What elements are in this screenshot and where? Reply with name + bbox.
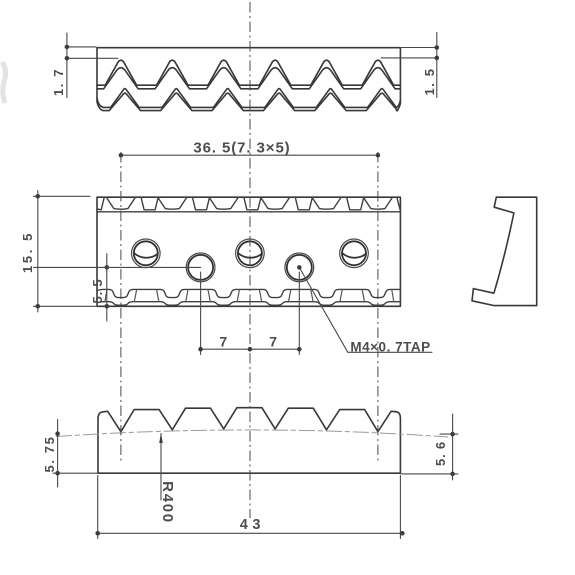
- svg-text:5. 75: 5. 75: [42, 436, 57, 473]
- svg-text:R400: R400: [159, 481, 176, 524]
- svg-text:36. 5(7. 3×5): 36. 5(7. 3×5): [193, 139, 290, 156]
- svg-text:1. 5: 1. 5: [422, 67, 437, 95]
- svg-text:43: 43: [240, 517, 265, 533]
- svg-text:1. 7: 1. 7: [51, 68, 66, 96]
- svg-text:5. 5: 5. 5: [90, 279, 105, 304]
- svg-text:5. 6: 5. 6: [433, 441, 448, 466]
- svg-text:M4×0. 7TAP: M4×0. 7TAP: [350, 340, 430, 355]
- svg-text:15. 5: 15. 5: [20, 231, 35, 273]
- svg-text:7: 7: [219, 334, 228, 350]
- svg-text:7: 7: [269, 334, 278, 350]
